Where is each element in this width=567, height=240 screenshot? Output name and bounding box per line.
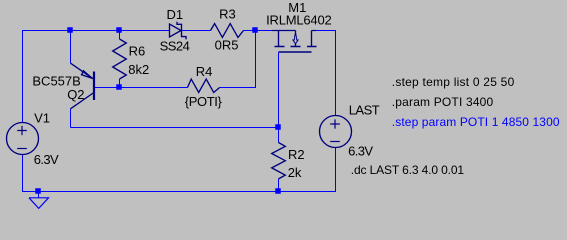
wire V1 bottom lead [22, 154, 24, 192]
resistor R6 body [113, 39, 127, 79]
svg-text:.dc LAST 6.3 4.0 0.01: .dc LAST 6.3 4.0 0.01 [351, 163, 465, 177]
svg-text:R2: R2 [288, 147, 305, 162]
junction gate wire / R2 top [275, 124, 281, 130]
diode D1 triangle [170, 24, 182, 37]
svg-text:0R5: 0R5 [215, 37, 239, 52]
svg-text:6.3V: 6.3V [348, 143, 373, 158]
voltage source LAST circle [320, 116, 352, 148]
svg-text:.step param POTI 1 4850 1300: .step param POTI 1 4850 1300 [392, 115, 560, 129]
svg-text:8k2: 8k2 [128, 62, 149, 77]
mosfet M1 drain contact [312, 31, 317, 47]
svg-text:V1: V1 [34, 111, 50, 126]
wire left riser V1 top [22, 30, 24, 123]
wire R6 top lead [119, 31, 121, 40]
svg-text:R6: R6 [129, 44, 146, 59]
transistor Q2 emitter diagonal [71, 63, 94, 79]
wire R4 to node A riser [220, 31, 256, 88]
svg-text:.step temp list 0 25 50: .step temp list 0 25 50 [392, 75, 515, 89]
wire drain riser to LAST top [335, 31, 337, 116]
wire bottom rail [22, 191, 336, 193]
svg-text:6.3V: 6.3V [34, 152, 59, 167]
voltage source LAST plus [330, 119, 340, 128]
wire R2 bottom lead [278, 179, 280, 192]
wire Q2 collector drop [70, 109, 72, 128]
transistor Q2 emitter arrow [82, 71, 93, 79]
wire collector to gate/R2 [71, 127, 279, 129]
wire M1 drain to right riser [316, 30, 336, 32]
transistor Q2 collector diagonal [71, 93, 94, 109]
junction bottom rail / R2 bottom [275, 188, 281, 194]
svg-text:SS24: SS24 [160, 38, 190, 53]
wire top rail V1+ to D1 anode [22, 30, 170, 32]
svg-text:{POTI}: {POTI} [185, 94, 223, 109]
diode D1 schottky cathode bar [177, 22, 186, 40]
wire D1 cathode to R3 [182, 30, 211, 32]
wire R3 to M1 source (node A) [244, 30, 273, 32]
wire R6 bottom lead [119, 79, 121, 88]
resistor R3 body [211, 24, 244, 38]
transistor Q2 base bar [93, 72, 95, 101]
wire Q2 base to R4 [95, 87, 188, 89]
resistor R4 body [188, 79, 220, 92]
resistor R2 body [272, 143, 286, 179]
wire Q2 emitter riser [70, 31, 72, 64]
svg-text:IRLML6402: IRLML6402 [266, 12, 331, 27]
wire LAST bottom lead [335, 148, 337, 193]
junction bottom rail / ground [35, 188, 41, 194]
ground symbol [29, 198, 49, 209]
mosfet M1 gate plate [279, 51, 312, 53]
svg-text:R4: R4 [196, 64, 213, 79]
junction top rail / Q2 emitter [67, 27, 73, 33]
svg-text:.param POTI 3400: .param POTI 3400 [392, 95, 494, 109]
svg-text:LAST: LAST [349, 103, 380, 118]
mosfet M1 source contact [278, 31, 280, 47]
voltage source LAST minus [330, 141, 340, 143]
voltage source V1 plus [17, 126, 27, 135]
svg-text:2k: 2k [288, 165, 302, 180]
mosfet M1 top bar source+body tie [272, 30, 296, 32]
svg-text:Q2: Q2 [67, 87, 84, 102]
voltage source V1 circle [7, 123, 39, 155]
junction base wire / R6 bottom [116, 84, 122, 90]
junction top rail / R6 top [116, 27, 122, 33]
mosfet M1 body contact with arrow [295, 31, 297, 47]
voltage source V1 minus [17, 148, 27, 150]
wire ground stub [38, 192, 40, 199]
junction node A (R3/R4/M1 source) [252, 27, 258, 33]
svg-text:D1: D1 [167, 7, 184, 22]
wire M1 gate lead down to R2 top [278, 52, 280, 142]
svg-text:R3: R3 [219, 7, 236, 22]
